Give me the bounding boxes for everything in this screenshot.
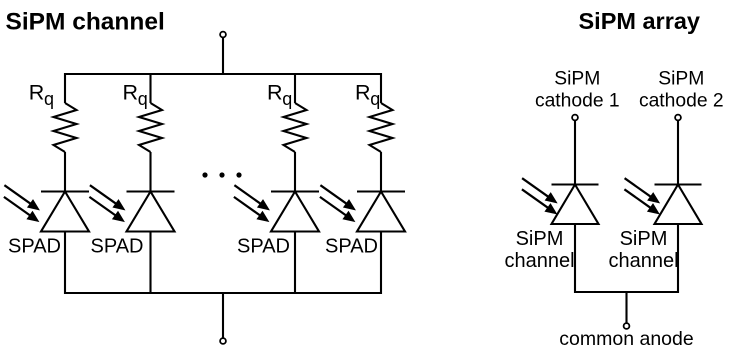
node SiPM cathode 2 terminal [675, 115, 681, 121]
wire common anode stem [625, 291, 627, 323]
SPAD D1 [41, 192, 89, 232]
svg-text:SPAD: SPAD [91, 236, 144, 258]
svg-text:SiPM: SiPM [620, 228, 668, 250]
wire channel 1 lower [574, 224, 576, 293]
wire branch2 upper [149, 73, 151, 103]
wire branch1 middle [64, 152, 66, 192]
svg-text:SPAD: SPAD [325, 236, 378, 258]
svg-text:channel: channel [504, 250, 574, 272]
ellipsis dots [202, 172, 241, 177]
label SiPM cathode 1 [535, 69, 620, 112]
wire cathode terminal stem [222, 38, 224, 76]
resistor Rq3 [284, 103, 307, 152]
svg-text:q: q [44, 89, 54, 109]
wire cathode 1 stem [574, 121, 576, 185]
svg-text:SPAD: SPAD [8, 236, 61, 258]
photon arrows D4 [320, 185, 355, 221]
wire common anode rail [575, 291, 678, 293]
label Rq1 [29, 81, 54, 110]
photon arrows U2 [624, 178, 659, 214]
svg-text:R: R [123, 81, 139, 105]
wire bottom rail [65, 292, 381, 294]
svg-text:R: R [267, 81, 283, 105]
svg-text:SPAD: SPAD [237, 236, 290, 258]
wire branch1 lower [64, 232, 66, 295]
svg-text:SiPM: SiPM [658, 69, 704, 90]
wire branch2 middle [149, 152, 151, 192]
wire branch4 middle [380, 152, 382, 192]
wire branch4 upper [380, 73, 382, 103]
label Rq4 [355, 81, 380, 110]
svg-text:q: q [138, 89, 148, 109]
svg-text:cathode 2: cathode 2 [639, 91, 724, 112]
svg-text:SiPM channel: SiPM channel [6, 9, 165, 36]
node common anode terminal [624, 323, 630, 329]
label Rq2 [123, 81, 148, 110]
resistor Rq2 [139, 103, 162, 152]
svg-text:SiPM: SiPM [554, 69, 600, 90]
wire branch3 middle [294, 152, 296, 192]
photon arrows D1 [4, 185, 39, 221]
svg-text:SiPM: SiPM [516, 228, 564, 250]
svg-text:cathode 1: cathode 1 [535, 91, 620, 112]
wire channel 2 lower [677, 224, 679, 293]
svg-text:q: q [370, 89, 380, 109]
node anode terminal [220, 338, 226, 344]
svg-text:q: q [282, 89, 292, 109]
svg-text:common anode: common anode [559, 328, 693, 350]
svg-text:R: R [355, 81, 371, 105]
node SiPM cathode 1 terminal [572, 115, 578, 121]
wire branch2 lower [149, 232, 151, 295]
SiPM channel symbol U1 [552, 185, 599, 225]
SPAD D3 [271, 192, 319, 232]
SPAD D2 [127, 192, 175, 232]
photon arrows U1 [522, 178, 557, 214]
wire branch4 lower [380, 232, 382, 295]
wire branch3 lower [294, 232, 296, 295]
photon arrows D3 [234, 185, 269, 221]
label Rq3 [267, 81, 292, 110]
SPAD D4 [357, 192, 405, 232]
label SiPM channel U1 [504, 228, 574, 272]
resistor Rq1 [54, 103, 77, 152]
label SiPM channel U2 [608, 228, 678, 272]
svg-text:channel: channel [608, 250, 678, 272]
wire anode terminal stem [222, 292, 224, 338]
wire top rail [65, 73, 381, 75]
node cathode terminal [220, 32, 226, 38]
svg-text:SiPM array: SiPM array [579, 8, 700, 34]
SiPM channel symbol U2 [655, 185, 702, 225]
wire branch3 upper [294, 73, 296, 103]
wire cathode 2 stem [677, 121, 679, 185]
svg-text:R: R [29, 81, 45, 105]
resistor Rq4 [370, 103, 393, 152]
label SiPM cathode 2 [639, 69, 724, 112]
wire branch1 upper [64, 73, 66, 103]
photon arrows D2 [89, 185, 124, 221]
